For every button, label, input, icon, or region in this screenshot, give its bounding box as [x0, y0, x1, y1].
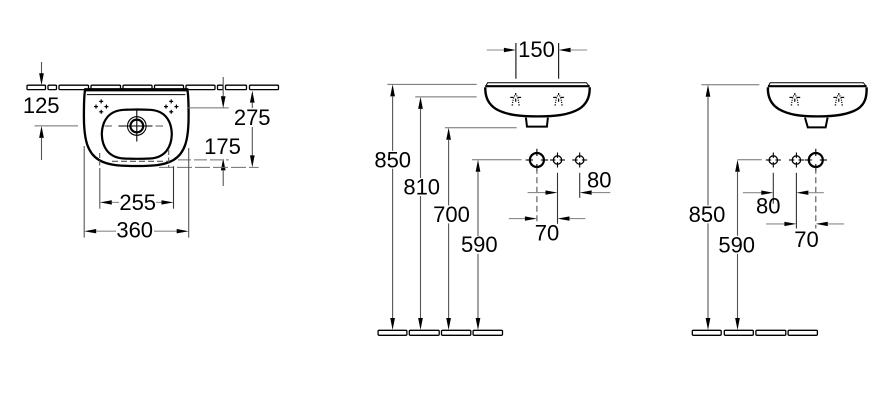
spray icon right (middle view) [553, 93, 564, 106]
svg-text:590: 590 [718, 232, 755, 257]
tap hole big circle ticks (middle) [526, 149, 548, 171]
dim 80 arrows (middle) [528, 192, 546, 194]
spray icon left (middle view) [510, 93, 521, 106]
svg-text:150: 150 [518, 37, 555, 62]
tap hole big circle (right) [809, 153, 823, 167]
dim 360 extension line right [188, 148, 190, 238]
dim 275 line lower segment and arrow [251, 127, 253, 156]
svg-text:255: 255 [119, 190, 156, 215]
extension line below small circle 2 (right) [795, 173, 797, 229]
spray icon right (right view) [833, 93, 844, 106]
svg-text:275: 275 [234, 105, 271, 130]
dim 700 vertical line and arrows (middle) [446, 128, 451, 140]
dim 850 vertical line and arrows (right) [706, 85, 711, 97]
basin top edge (thick rim line at wall) [85, 89, 188, 92]
tap hole small circle 1 (middle) [553, 156, 561, 164]
extension line below small circle 1 (middle) [557, 173, 559, 224]
floor tiles (right) [692, 330, 817, 335]
svg-text:125: 125 [23, 93, 60, 118]
svg-text:850: 850 [689, 202, 726, 227]
level line 850 (right) [701, 84, 759, 86]
dim 255 arrows and line [100, 200, 112, 204]
tap hole small circle 1 (right) [769, 156, 777, 164]
tap hole small circle 2 (right) [792, 156, 800, 164]
svg-text:175: 175 [204, 134, 241, 159]
svg-text:360: 360 [116, 218, 153, 243]
svg-text:590: 590 [461, 232, 498, 257]
dim 175 lower arrow (to bowl bottom hidden edge level) [221, 158, 226, 170]
level line bowl bottom (175 reference) [178, 159, 229, 161]
outlet trapezoid (front view middle) [526, 118, 548, 127]
dim 360 arrows and line [84, 229, 96, 233]
inner bowl outline (top view) [102, 110, 172, 159]
dim 590 vertical line and arrows (middle) [476, 160, 481, 172]
svg-text:70: 70 [794, 227, 818, 252]
dim 150 left line and arrow [487, 49, 505, 51]
drain inner circle [130, 120, 143, 133]
dim 810 vertical line and arrows (middle) [418, 97, 423, 109]
level line 810 (middle) [415, 96, 477, 98]
dim 125 lower arrow (to drain level) [39, 126, 44, 138]
svg-text:810: 810 [403, 175, 440, 200]
centre dashed line below big circle (right) [815, 168, 817, 229]
dim 255 extension line left [99, 168, 101, 209]
tap hole small circle 2 (middle) [576, 156, 584, 164]
dim 850 vertical line and arrows (middle) [390, 84, 395, 96]
dim 590 vertical line and arrows (right) [735, 160, 740, 172]
basin bowl (right view) [768, 87, 867, 116]
svg-text:80: 80 [756, 194, 780, 219]
drain crosshair horizontal [119, 125, 153, 127]
extension line below small circle 1 (right) [772, 173, 774, 204]
tap hole mark right (cross of four plus ticks) [164, 99, 178, 113]
floor tiles (middle) [378, 330, 502, 335]
svg-text:700: 700 [433, 202, 470, 227]
basin rim top thin edge (front view middle) [486, 83, 590, 87]
dim 175 upper arrow (to bowl top edge level) [222, 77, 224, 97]
wall hatch (masonry band behind basin, top view) [27, 85, 279, 89]
dim 360 extension line left [83, 146, 85, 238]
hidden edge dashes (bottom of basin, top view) [112, 160, 168, 162]
dim 150 right line and arrow [559, 48, 571, 52]
dim 80 arrows (right) [743, 192, 762, 194]
level line 590 (right) [738, 159, 762, 161]
basin bowl (front view middle) [485, 87, 589, 116]
svg-text:80: 80 [587, 168, 611, 193]
level line 590 (middle) [472, 159, 522, 161]
basin rim thick line (right view) [768, 85, 867, 87]
dim 150 extension lines [515, 43, 517, 79]
dim 255 extension line right [173, 166, 175, 209]
outlet trapezoid (right view) [805, 118, 828, 128]
level line 850 (middle) [387, 83, 476, 85]
tap hole big circle (middle) [530, 153, 544, 167]
dim 275 upper arrow (to wall) [250, 91, 255, 103]
basin outer body (top view) [84, 89, 189, 166]
dim 125 level line at drain centre [35, 125, 79, 127]
level line basin bottom (275 reference) [159, 166, 259, 168]
basin rim top thin edge (right view) [768, 83, 866, 87]
dim 70 arrows (middle) [509, 218, 525, 220]
extension line below small circle 2 (middle) [579, 173, 581, 198]
drain centerline dashes [105, 125, 113, 127]
hidden edge left vertical dash [99, 153, 101, 168]
level line 700 (middle) [445, 127, 517, 129]
basin rim inner thin line [87, 94, 186, 96]
hidden edge right vertical dash [168, 150, 170, 168]
level line bowl top edge (175 upper reference) [187, 107, 229, 109]
drain outer circle [128, 117, 147, 136]
tap hole mark left (cross of four plus ticks) [94, 99, 108, 113]
drain crosshair vertical [136, 110, 138, 142]
spray icon left (right view) [789, 93, 800, 106]
dim 70 arrows (right) [766, 223, 785, 225]
dim 125 upper arrow (to wall) [41, 62, 43, 75]
basin rim thick line (front view middle) [485, 85, 589, 87]
svg-text:850: 850 [374, 147, 411, 172]
centre dashed line below big circle (middle) [536, 168, 538, 222]
svg-text:70: 70 [535, 220, 559, 245]
